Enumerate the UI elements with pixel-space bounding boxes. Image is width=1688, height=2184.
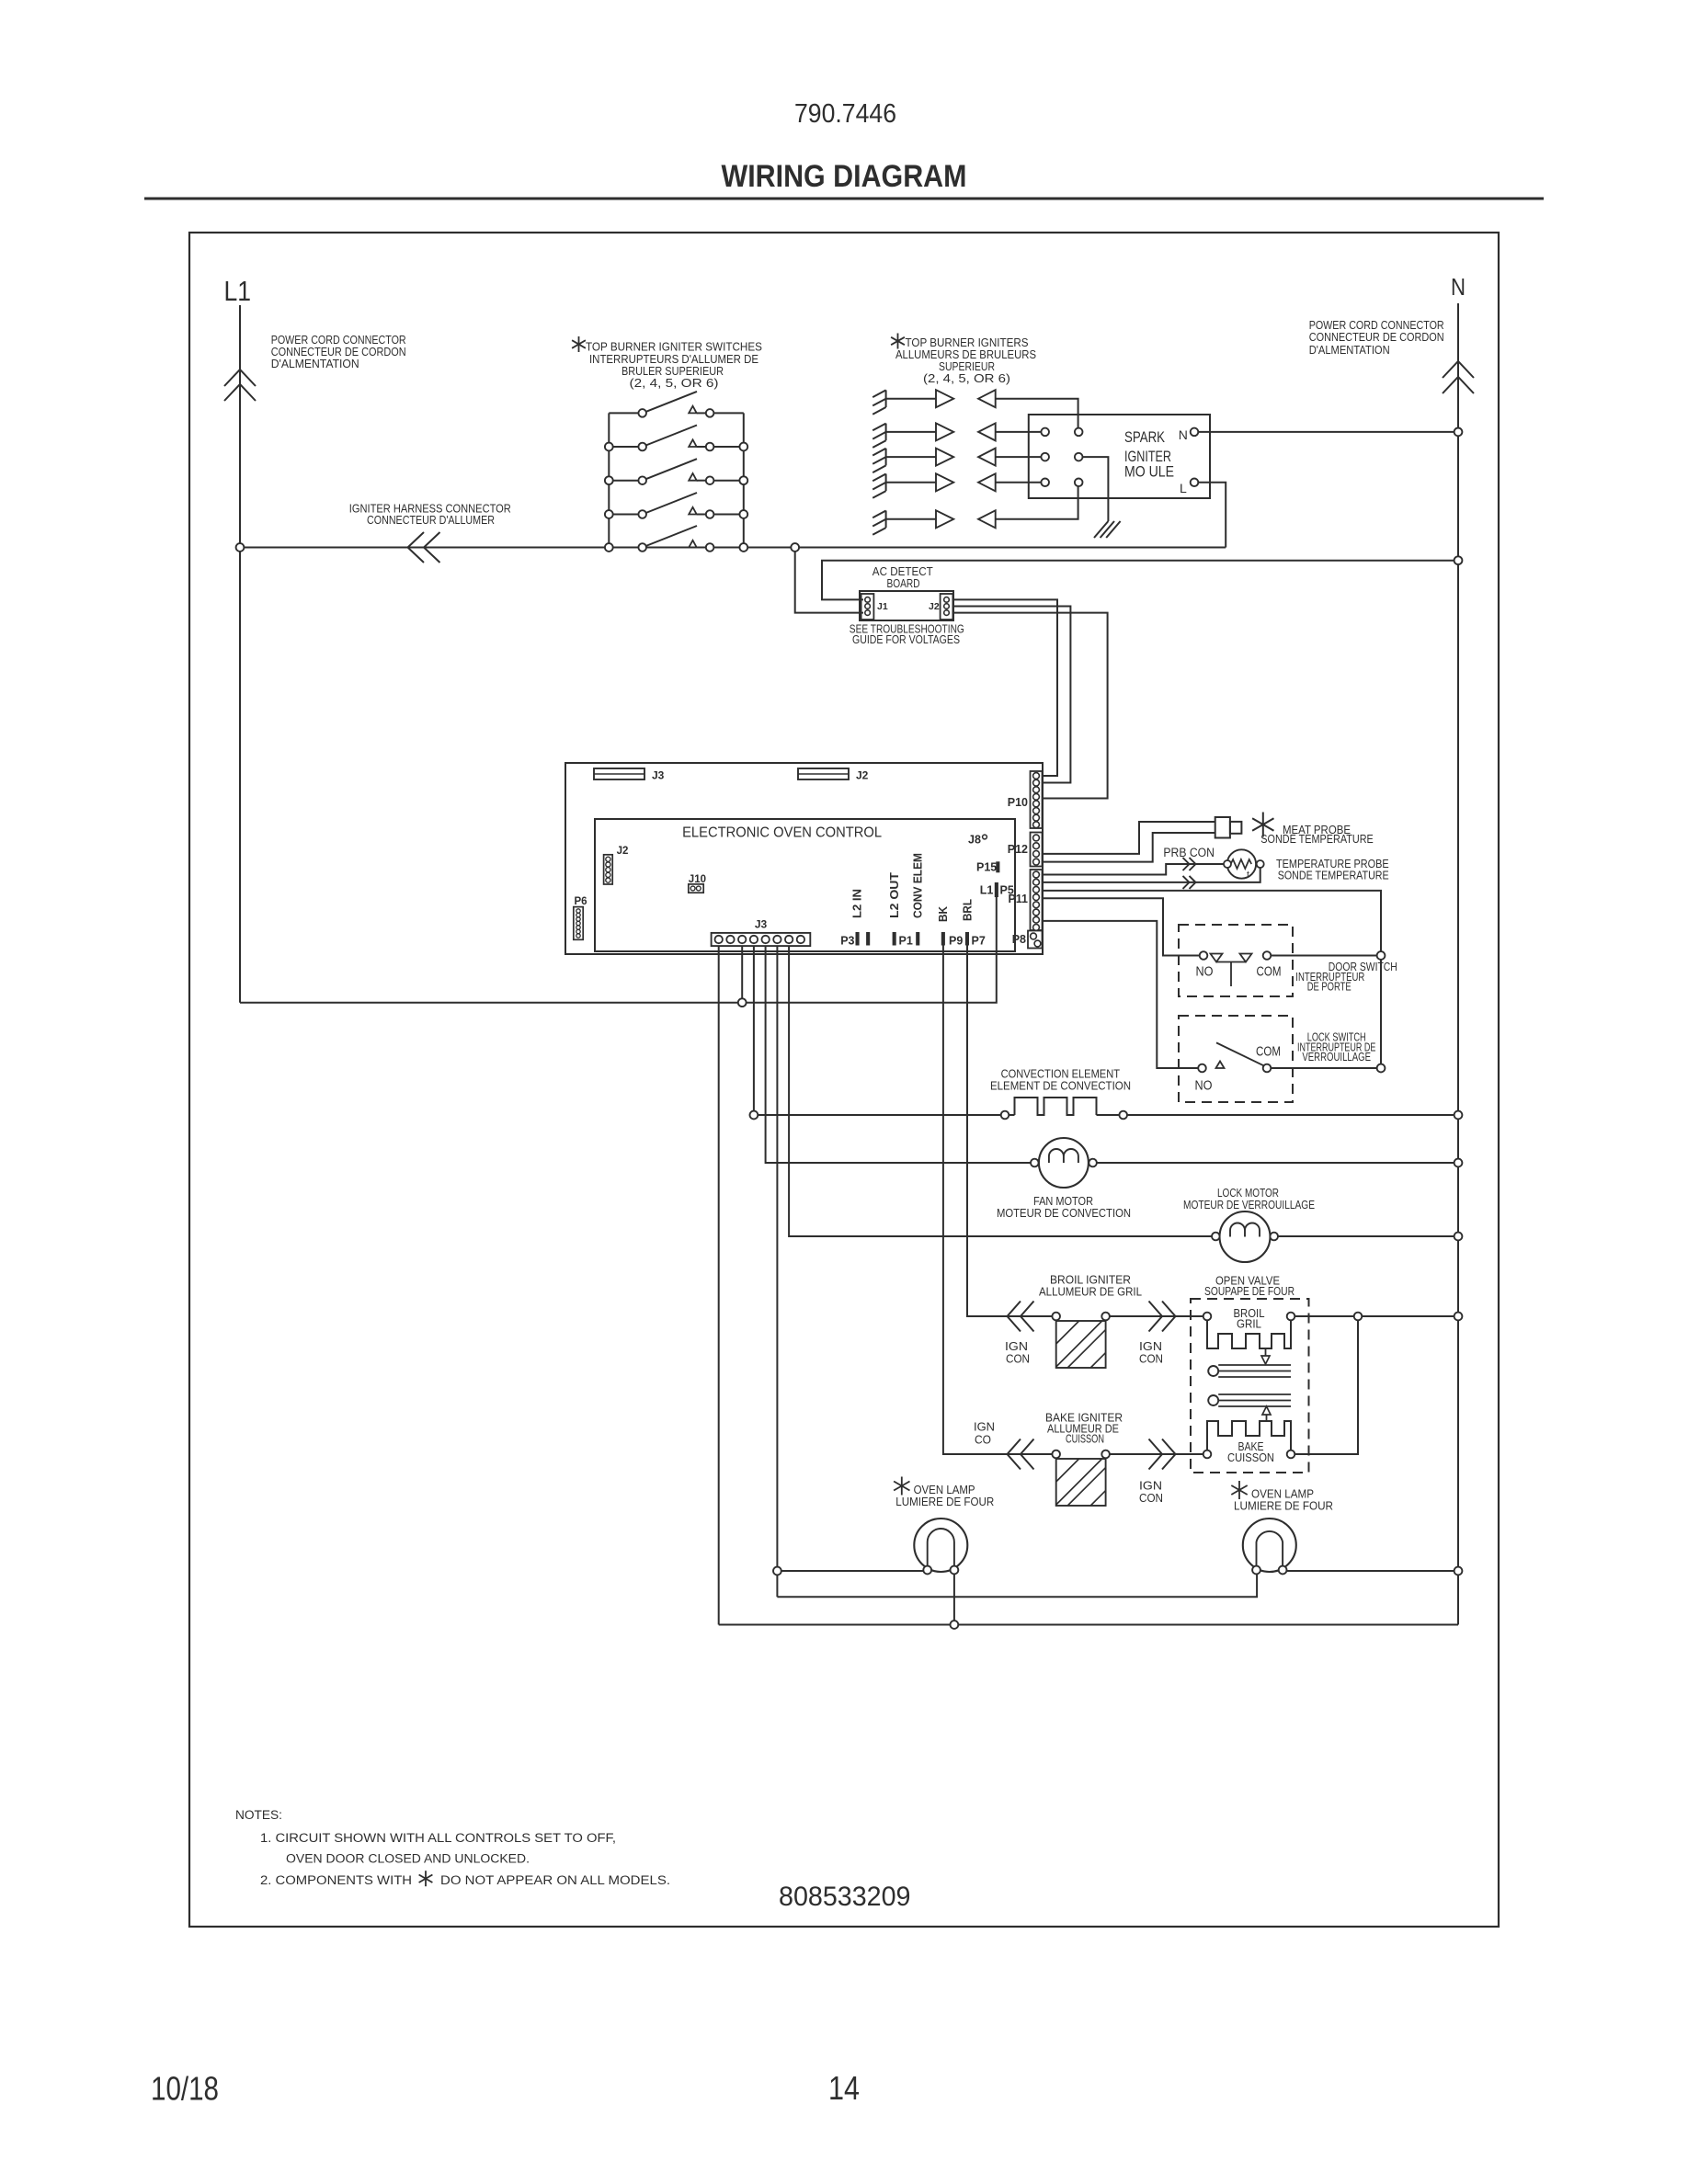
switch S3 top burner igniter switch: [609, 480, 638, 482]
svg-text:CUISSON: CUISSON: [1227, 1451, 1274, 1464]
asterisk meat probe: [1252, 813, 1273, 837]
svg-text:PRB CON: PRB CON: [1163, 846, 1215, 859]
asterisk oven lamp right: [1231, 1481, 1247, 1499]
broil igniter element: [1052, 1313, 1060, 1321]
svg-text:IGN: IGN: [974, 1421, 995, 1434]
svg-text:OVEN LAMP: OVEN LAMP: [1251, 1488, 1314, 1501]
power cord connector L1 (chevrons): [224, 384, 256, 401]
connector J3 (EOC top): [594, 768, 644, 779]
wire J3 pin1 to neutral return: [718, 946, 720, 1624]
svg-text:1. CIRCUIT SHOWN WITH ALL CON: 1. CIRCUIT SHOWN WITH ALL CONTROLS SET T…: [260, 1831, 616, 1845]
wire J3 pin6 run to right lamp: [777, 1574, 1257, 1597]
diagram border frame: [189, 233, 1499, 1927]
EOC inner box: [595, 819, 1015, 951]
wire P12 pin4 to meat probe: [1043, 833, 1215, 862]
pin P9: [941, 933, 944, 946]
probe connector chevrons line2: [1183, 876, 1190, 889]
svg-text:CON: CON: [1139, 1492, 1163, 1505]
svg-text:10/18: 10/18: [151, 2070, 219, 2108]
asterisk oven lamp left: [894, 1477, 909, 1496]
svg-text:FAN MOTOR: FAN MOTOR: [1033, 1195, 1093, 1208]
svg-text:LOCK MOTOR: LOCK MOTOR: [1217, 1187, 1279, 1200]
svg-text:ALLUMEURS DE BRULEURS: ALLUMEURS DE BRULEURS: [895, 348, 1036, 361]
wire right lamp to neutral rail: [1286, 1570, 1458, 1572]
svg-text:SONDE TEMPERATURE: SONDE TEMPERATURE: [1278, 870, 1389, 882]
meat probe connector: [1215, 817, 1230, 838]
horizontal rule: [144, 198, 1544, 200]
svg-text:NOTES:: NOTES:: [235, 1808, 282, 1822]
bake igniter element: [1052, 1450, 1060, 1459]
svg-text:BOARD: BOARD: [887, 577, 920, 590]
svg-text:SPARK: SPARK: [1124, 429, 1165, 446]
svg-text:LUMIERE DE FOUR: LUMIERE DE FOUR: [1234, 1500, 1333, 1513]
svg-text:COM: COM: [1257, 965, 1282, 980]
svg-text:L1: L1: [224, 275, 252, 307]
svg-text:CONVECTION ELEMENT: CONVECTION ELEMENT: [1001, 1067, 1121, 1080]
bake solenoid coil: [1207, 1421, 1291, 1450]
node door switch COM junction: [1377, 951, 1386, 960]
svg-text:14: 14: [828, 2069, 860, 2107]
svg-text:D'ALMENTATION: D'ALMENTATION: [1309, 344, 1390, 357]
svg-text:CUISSON: CUISSON: [1066, 1433, 1104, 1446]
svg-text:CONNECTEUR D'ALLUMER: CONNECTEUR D'ALLUMER: [367, 514, 495, 527]
svg-text:IGNITER: IGNITER: [1124, 449, 1171, 465]
svg-text:INTERRUPTEURS D'ALLUMER DE: INTERRUPTEURS D'ALLUMER DE: [589, 353, 758, 366]
svg-text:CONV ELEM: CONV ELEM: [911, 853, 924, 918]
broil igniter connector chevrons: [1008, 1302, 1021, 1332]
fan motor M1: [1039, 1138, 1089, 1188]
wire BRL pin to broil igniter: [967, 945, 1052, 1316]
ground (spark module): [1094, 521, 1108, 538]
svg-text:DO NOT APPEAR ON ALL MODELS.: DO NOT APPEAR ON ALL MODELS.: [440, 1873, 670, 1887]
wire AC J2 pin3 to EOC P10: [952, 613, 1107, 799]
door switch contacts: [1200, 951, 1208, 960]
svg-text:J3: J3: [652, 769, 665, 782]
igniter electrode E2: [885, 424, 887, 441]
wire J3 pin5 to fan motor line: [766, 946, 1031, 1163]
temperature probe RT1 (thermistor): [1227, 849, 1256, 878]
wire igniter row 5 to spark module: [996, 486, 1078, 519]
connector P12: [1031, 833, 1043, 867]
switch S1 top burner igniter switch: [609, 412, 638, 414]
node neutral return junction: [951, 1621, 959, 1629]
wire lock switch COM: [1271, 1067, 1381, 1069]
broil valve arrow: [1265, 1348, 1267, 1356]
pin P7: [965, 933, 968, 946]
svg-text:N: N: [1451, 273, 1466, 301]
svg-text:GUIDE FOR VOLTAGES: GUIDE FOR VOLTAGES: [852, 633, 960, 646]
wire convection element to neutral: [1097, 1114, 1120, 1116]
label top burner igniter switches: [572, 336, 586, 352]
wire broil igniter to valve: [1110, 1315, 1203, 1317]
svg-text:L: L: [1180, 481, 1187, 495]
svg-text:OVEN DOOR CLOSED AND UNLOCKED.: OVEN DOOR CLOSED AND UNLOCKED.: [286, 1852, 530, 1866]
svg-text:(2, 4, 5, OR 6): (2, 4, 5, OR 6): [630, 377, 719, 390]
svg-text:MOTEUR DE CONVECTION: MOTEUR DE CONVECTION: [997, 1207, 1131, 1220]
valve connector chevrons bake: [1149, 1439, 1163, 1470]
svg-text:CONNECTEUR DE CORDON: CONNECTEUR DE CORDON: [271, 346, 406, 358]
convection element R1: [754, 1114, 1001, 1116]
svg-text:ALLUMEUR DE GRIL: ALLUMEUR DE GRIL: [1039, 1286, 1142, 1299]
svg-text:SUPERIEUR: SUPERIEUR: [939, 360, 995, 373]
svg-text:t: t: [1247, 870, 1249, 881]
svg-text:COM: COM: [1256, 1045, 1281, 1060]
svg-text:NO: NO: [1195, 1079, 1213, 1094]
oven gas valve box: [1191, 1299, 1309, 1473]
igniter electrode E1: [885, 390, 887, 407]
wire AC J2 pin1 to EOC P10: [952, 599, 1057, 776]
svg-text:P9: P9: [949, 935, 963, 948]
svg-text:J1: J1: [877, 601, 888, 612]
svg-text:P5: P5: [1000, 883, 1014, 896]
wire spark N to neutral rail: [1198, 431, 1458, 433]
node L1 harness junctions: [236, 543, 245, 552]
svg-text:P8: P8: [1012, 933, 1026, 946]
wire spark L to harness line: [1198, 483, 1226, 548]
bake valve arrow: [1262, 1406, 1271, 1415]
wire igniter row 4 to spark module: [996, 482, 1042, 483]
connector J2 (AC board): [941, 594, 953, 620]
svg-text:BK: BK: [937, 906, 950, 922]
svg-text:SOUPAPE DE FOUR: SOUPAPE DE FOUR: [1204, 1285, 1295, 1298]
spark igniter module box: [1029, 415, 1210, 498]
igniter harness connector (chevrons): [408, 532, 425, 563]
wire EOC L1 pin to L1 rail: [240, 897, 997, 1003]
connector P11: [1031, 870, 1043, 930]
svg-text:N: N: [1179, 427, 1188, 442]
wire switch bank left rail: [608, 413, 610, 547]
svg-text:CONNECTEUR DE CORDON: CONNECTEUR DE CORDON: [1309, 331, 1444, 344]
wire spark module ground lead: [1083, 457, 1109, 521]
svg-text:TOP BURNER IGNITER SWITCHES: TOP BURNER IGNITER SWITCHES: [586, 341, 762, 354]
svg-text:P7: P7: [972, 935, 986, 948]
svg-text:POWER CORD CONNECTOR: POWER CORD CONNECTOR: [1309, 319, 1444, 332]
wire bake valve to broil line: [1295, 1320, 1358, 1454]
svg-text:D'ALMENTATION: D'ALMENTATION: [271, 358, 359, 370]
node lamp line junction: [773, 1567, 781, 1575]
wire AC board J1 pin1 to neutral rail: [822, 561, 1458, 600]
wire lamp line left: [777, 1570, 923, 1572]
wire harness tap to AC board J1 pin3: [795, 548, 863, 613]
svg-text:P10: P10: [1008, 796, 1028, 809]
wire switch bank right rail: [743, 413, 745, 547]
broil solenoid coil: [1207, 1320, 1291, 1348]
wire J3 pin3 to L1 line: [741, 946, 743, 1003]
svg-text:TOP BURNER IGNITERS: TOP BURNER IGNITERS: [906, 336, 1029, 349]
svg-text:VERROUILLAGE: VERROUILLAGE: [1302, 1051, 1371, 1064]
node switch rail junction: [605, 443, 613, 451]
lock switch contacts: [1198, 1064, 1206, 1073]
svg-text:ELEMENT DE CONVECTION: ELEMENT DE CONVECTION: [990, 1080, 1131, 1093]
svg-text:J8: J8: [968, 833, 981, 846]
valve connector chevrons broil: [1149, 1302, 1163, 1332]
svg-text:P6: P6: [575, 896, 587, 907]
node neutral rail junctions: [1454, 428, 1463, 437]
spark module N terminal: [1191, 428, 1199, 437]
oven lamp DS1: [914, 1519, 967, 1572]
node switch rail junction: [605, 476, 613, 484]
wire bake igniter to valve: [1110, 1453, 1203, 1455]
svg-text:J3: J3: [755, 918, 768, 931]
wire P11 pin2 to temp probe return: [1043, 868, 1260, 882]
svg-text:CON: CON: [1006, 1353, 1030, 1366]
svg-text:790.7446: 790.7446: [794, 99, 896, 129]
wire igniter row 2 to spark module: [996, 431, 1042, 433]
wire P11 pin7 to lock switch NO: [1043, 921, 1198, 1068]
node switch rail junction: [605, 510, 613, 518]
svg-text:IGN: IGN: [1005, 1340, 1028, 1353]
AC detect board box: [860, 591, 953, 620]
wire P12 pin3 to meat probe: [1043, 822, 1215, 854]
svg-text:MOTEUR DE VERROUILLAGE: MOTEUR DE VERROUILLAGE: [1183, 1199, 1315, 1211]
wire J3 pin7 to lock motor line: [789, 946, 1212, 1236]
svg-text:J10: J10: [689, 874, 706, 885]
svg-text:2. COMPONENTS WITH: 2. COMPONENTS WITH: [260, 1873, 412, 1887]
igniter electrode E5: [885, 511, 887, 529]
wire igniter row 1 to spark module: [996, 399, 1078, 428]
svg-text:IGN: IGN: [1139, 1340, 1162, 1353]
svg-text:MO ULE: MO ULE: [1124, 464, 1174, 481]
svg-text:IGN: IGN: [1139, 1480, 1162, 1493]
svg-text:CO: CO: [975, 1433, 991, 1446]
svg-text:NO: NO: [1196, 965, 1214, 980]
wire P11 pin4 to door switch NO: [1043, 898, 1200, 955]
svg-text:SONDE TEMPERATURE: SONDE TEMPERATURE: [1260, 833, 1374, 846]
svg-text:L1: L1: [980, 883, 994, 896]
switch S2 top burner igniter switch: [609, 446, 638, 448]
wire P11 pin3 common to switches: [1043, 891, 1381, 1068]
spark module terminals: [1041, 428, 1049, 437]
svg-text:P12: P12: [1008, 843, 1028, 856]
svg-text:P3: P3: [840, 935, 854, 948]
pin P1: [893, 933, 895, 946]
svg-text:GRIL: GRIL: [1237, 1318, 1261, 1331]
switch S4 top burner igniter switch: [609, 514, 638, 516]
wire igniter harness line L1: [240, 547, 1226, 549]
igniter electrode E3: [885, 449, 887, 466]
wire BK pin to bake igniter: [943, 945, 1053, 1454]
svg-text:POWER CORD CONNECTOR: POWER CORD CONNECTOR: [271, 334, 406, 347]
wire P11 pin1 to temp probe: [1043, 864, 1224, 875]
lock switch box: [1179, 1016, 1293, 1102]
wire L1 vertical rail: [239, 305, 241, 1003]
svg-text:BRL: BRL: [961, 899, 974, 921]
gas outlet bake: [1208, 1395, 1218, 1405]
label top burner igniters: [891, 334, 905, 349]
wire fan motor to neutral: [1097, 1162, 1458, 1164]
connector P8: [1028, 931, 1043, 949]
oven lamp DS2: [1243, 1519, 1296, 1572]
connector P10: [1031, 771, 1043, 828]
svg-text:J2: J2: [929, 601, 940, 612]
wire lock motor to neutral: [1278, 1235, 1458, 1237]
svg-text:808533209: 808533209: [779, 1882, 911, 1912]
switch S5 top burner igniter switch: [609, 547, 638, 549]
wire N vertical rail: [1457, 303, 1459, 1625]
lock motor M2: [1220, 1211, 1271, 1262]
wire neutral return line: [719, 1624, 1458, 1626]
svg-text:BRULER SUPERIEUR: BRULER SUPERIEUR: [622, 365, 724, 378]
svg-text:WIRING DIAGRAM: WIRING DIAGRAM: [722, 159, 967, 194]
wire broil valve to neutral rail: [1295, 1315, 1458, 1317]
connector J2 (EOC top): [798, 768, 849, 779]
svg-text:CON: CON: [1139, 1353, 1163, 1366]
wire lamp left terminal to neutral return: [953, 1574, 955, 1624]
gas outlet broil: [1208, 1366, 1218, 1376]
wire J3 pin6 to oven lamp line: [776, 946, 778, 1597]
wire AC J2 pin2 to EOC P10: [952, 607, 1070, 783]
door switch box: [1179, 925, 1293, 996]
node J3 pin3 junction: [738, 998, 747, 1007]
connector J1 (AC board): [861, 594, 874, 620]
node lock switch COM junction: [1377, 1064, 1386, 1073]
svg-text:L2 OUT: L2 OUT: [888, 872, 901, 918]
wire igniter row 3 to spark module: [996, 456, 1042, 458]
svg-text:P15: P15: [976, 861, 997, 874]
svg-text:LUMIERE DE FOUR: LUMIERE DE FOUR: [895, 1496, 994, 1508]
svg-text:L2 IN: L2 IN: [851, 889, 864, 918]
svg-text:J2: J2: [617, 846, 629, 857]
rotated pin labels: [851, 853, 975, 922]
svg-text:(2, 4, 5, OR 6): (2, 4, 5, OR 6): [923, 372, 1010, 385]
svg-text:ELECTRONIC OVEN CONTROL: ELECTRONIC OVEN CONTROL: [682, 825, 882, 841]
bake igniter connector chevrons: [1008, 1439, 1021, 1470]
power cord connector N (chevrons): [1443, 377, 1474, 393]
probe connector chevrons line1: [1183, 858, 1190, 870]
svg-text:AC DETECT: AC DETECT: [873, 565, 933, 578]
wire door switch COM: [1271, 955, 1381, 957]
igniter electrode E4: [885, 474, 887, 492]
spark module L terminal: [1191, 479, 1199, 487]
svg-text:J2: J2: [856, 769, 869, 782]
svg-text:P1: P1: [899, 935, 913, 948]
svg-text:BROIL IGNITER: BROIL IGNITER: [1050, 1274, 1131, 1287]
wire J3 pin4 to convection line: [753, 946, 755, 1115]
svg-text:DE PORTE: DE PORTE: [1307, 981, 1352, 994]
EOC outer board box: [565, 763, 1043, 954]
